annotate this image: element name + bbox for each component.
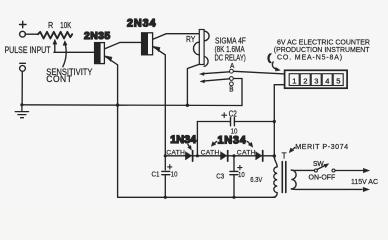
input terminal - [20, 66, 26, 72]
junction dot rail left [164, 154, 167, 157]
wire middle contact to rail [234, 79, 242, 106]
svg-text:T: T [282, 152, 287, 161]
2N34 collector wire to relay [153, 34, 199, 40]
svg-text:SW: SW [313, 161, 324, 168]
wire contact A to terminal box [234, 71, 285, 74]
svg-text:6V AC ELECTRIC COUNTER: 6V AC ELECTRIC COUNTER [277, 39, 370, 46]
primary bottom wire [291, 188, 362, 191]
resistor R 10K [38, 32, 72, 39]
junction dot C2/diode rail [196, 154, 199, 157]
minus terminal sign [20, 62, 26, 64]
left label arrow [188, 144, 190, 147]
svg-text:C2: C2 [229, 110, 237, 119]
wire input to R [25, 33, 38, 35]
junction dot ground [20, 103, 23, 106]
svg-text:2N35: 2N35 [84, 31, 111, 42]
C3 plus [238, 165, 242, 169]
svg-text:6.3V: 6.3V [250, 176, 263, 184]
svg-text:RY: RY [186, 34, 195, 44]
terminal 1 [289, 74, 299, 86]
svg-text:(PRODUCTION INSTRUMENT: (PRODUCTION INSTRUMENT [274, 47, 370, 54]
counter pointer arrow [272, 62, 276, 70]
relay contact middle [230, 77, 234, 81]
svg-text:CO. MEA-N5-8A): CO. MEA-N5-8A) [277, 55, 343, 62]
relay coil winding [194, 31, 210, 66]
diode D3 [256, 152, 262, 160]
svg-text:MERIT P-3074: MERIT P-3074 [295, 142, 348, 151]
svg-text:C3: C3 [216, 173, 224, 181]
junction dot C3 bottom [232, 196, 235, 199]
junction dot C1 bottom [164, 196, 167, 199]
2N35 emitter wire [105, 56, 118, 197]
transistor 2N35 [95, 43, 105, 64]
junction dot C3 [232, 154, 235, 157]
capacitor C2 left lead [197, 121, 230, 123]
wire wiper to 2N35 base [54, 51, 95, 53]
svg-text:R: R [48, 20, 53, 30]
115V top lead [335, 170, 365, 172]
diode D1 [185, 152, 191, 160]
relay contact B [230, 82, 234, 86]
2N34 emitter wire [153, 47, 165, 170]
transformer secondary winding [273, 156, 278, 197]
svg-text:1N34: 1N34 [218, 135, 247, 147]
junction dot emitter/ground rail [116, 103, 119, 106]
diode D2 [221, 152, 227, 160]
svg-text:C1: C1 [152, 171, 160, 179]
sensitivity pointer arrow [63, 44, 66, 67]
switch contact 2 [332, 169, 335, 172]
capacitor C3 upper lead [233, 156, 235, 172]
svg-text:A: A [230, 62, 235, 70]
terminal 2 [300, 74, 310, 86]
switch lever [317, 165, 326, 169]
transformer primary winding [291, 170, 296, 189]
svg-text:1N34: 1N34 [170, 134, 196, 146]
svg-text:2: 2 [303, 76, 307, 85]
junction dot coil/rail [186, 104, 189, 107]
svg-text:5: 5 [336, 76, 340, 85]
ground symbol [15, 105, 28, 118]
2N34 emitter arrow [154, 46, 160, 52]
svg-text:10: 10 [171, 171, 178, 179]
right label left arrow [214, 142, 217, 145]
transistor 2N34 [142, 33, 153, 55]
wire minus terminal down [21, 71, 23, 105]
capacitor C3 [230, 171, 238, 174]
relay contact A [230, 69, 234, 73]
C3 lower lead [233, 175, 235, 198]
terminal 4 [322, 74, 332, 86]
svg-text:10: 10 [238, 172, 245, 180]
C1 plus [168, 165, 172, 169]
terminal 3 [311, 74, 321, 86]
svg-text:B: B [229, 86, 234, 94]
junction dot transformer node [273, 154, 276, 157]
svg-text:4: 4 [325, 76, 329, 85]
svg-text:ON-OFF: ON-OFF [309, 175, 336, 182]
wire terminal box down to C2 node [274, 85, 284, 157]
svg-text:10K: 10K [60, 20, 71, 30]
svg-text:PULSE INPUT: PULSE INPUT [5, 45, 51, 55]
svg-text:3: 3 [314, 76, 318, 85]
2N35 emitter arrow [106, 56, 112, 62]
ground rail wire [22, 104, 242, 107]
primary top wire [291, 169, 314, 171]
right label right arrow [248, 142, 251, 145]
transformer core [282, 162, 286, 193]
relay coil core [199, 30, 204, 65]
input terminal + [20, 31, 26, 37]
C1 lower lead [164, 175, 166, 198]
bottom rail wire [118, 196, 275, 198]
terminal 5 [333, 74, 343, 86]
C2 plus [222, 113, 227, 118]
MERIT pointer arrow [292, 148, 295, 151]
armature arm 2 [203, 79, 229, 81]
junction dot C2 right [273, 120, 276, 123]
potentiometer wiper arrow [54, 43, 56, 53]
svg-text:115V AC: 115V AC [351, 177, 378, 186]
2N35 collector wire to 2N34 base [105, 42, 142, 48]
svg-text:CONT: CONT [46, 74, 72, 84]
terminal strip box [285, 70, 348, 88]
switch contact 1 [314, 169, 317, 172]
capacitor C1 [162, 171, 170, 174]
diode rail wire [165, 155, 274, 157]
armature arm 1 [203, 72, 230, 74]
plus terminal sign [20, 21, 27, 27]
svg-text:1: 1 [292, 76, 296, 85]
relay coil bottom wire [187, 64, 199, 105]
capacitor C2 right lead [234, 121, 274, 123]
capacitor C2 [231, 118, 235, 126]
svg-text:2N34: 2N34 [127, 17, 156, 29]
C2 vertical wire to diode rail [196, 122, 198, 156]
